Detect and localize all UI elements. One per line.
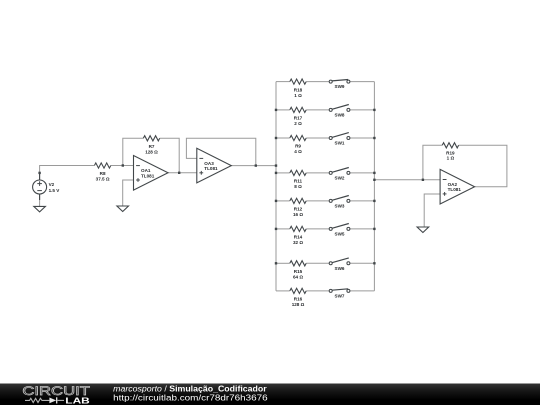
node OA1 output junction xyxy=(178,172,180,174)
svg-text:TL081: TL081 xyxy=(204,166,218,171)
node right bus row 2 xyxy=(373,109,375,111)
svg-text:R8: R8 xyxy=(100,171,106,176)
svg-text:R12: R12 xyxy=(294,207,303,212)
svg-text:SW8: SW8 xyxy=(335,113,345,118)
node left bus row 6 xyxy=(275,228,277,230)
footer bar xyxy=(0,384,540,405)
svg-text:TL081: TL081 xyxy=(448,187,462,192)
wire branch row 1 (R18/SW9) xyxy=(276,81,290,83)
node left bus row 3 xyxy=(275,137,277,139)
wire ladder right bus xyxy=(373,82,375,291)
wire OA3 feedback loop xyxy=(186,138,255,165)
svg-text:SW5: SW5 xyxy=(335,232,345,237)
node right bus row 7 xyxy=(373,262,375,264)
svg-text:marcosporto / Simulação_Codifi: marcosporto / Simulação_Codificador xyxy=(113,385,266,394)
wire R19 to OA2 output xyxy=(459,145,507,186)
node OA2 inverting input junction xyxy=(422,179,424,181)
svg-text:R9: R9 xyxy=(295,144,301,149)
svg-text:SW3: SW3 xyxy=(335,204,345,209)
resistor R15 xyxy=(290,261,306,280)
node left bus / OA3 output xyxy=(275,164,277,166)
wire V2 to R8 input line xyxy=(40,166,95,180)
ground (OA1 + input) xyxy=(117,206,129,212)
wire OA1 noninverting input to ground xyxy=(123,180,134,206)
resistor R16 xyxy=(290,288,306,307)
svg-text:8 Ω: 8 Ω xyxy=(294,184,302,189)
svg-text:SW1: SW1 xyxy=(335,141,345,146)
switch SW5 xyxy=(329,224,350,237)
resistor R11 xyxy=(290,170,306,189)
node right bus row 5 xyxy=(373,200,375,202)
wire R8 to OA1 inverting input xyxy=(111,165,134,167)
switch SW8 xyxy=(329,105,350,118)
wire V2 negative to ground xyxy=(39,194,41,206)
resistor R18 xyxy=(290,79,306,98)
svg-text:16 Ω: 16 Ω xyxy=(293,212,303,217)
svg-text:32 Ω: 32 Ω xyxy=(293,240,303,245)
switch SW2 xyxy=(329,168,350,181)
svg-text:1 Ω: 1 Ω xyxy=(447,156,455,161)
wire OA1 output to OA3 noninverting input xyxy=(168,172,197,174)
wire branch row 2 (R17/SW8) xyxy=(276,109,290,111)
switch SW3 xyxy=(329,196,350,209)
svg-text:V2: V2 xyxy=(49,182,55,187)
resistor R12 xyxy=(290,198,306,217)
node left bus row 7 xyxy=(275,262,277,264)
node right bus / OA2 input xyxy=(373,179,375,181)
op-amp OA2 xyxy=(440,169,475,204)
wire R7 to OA1 output xyxy=(160,138,180,173)
svg-text:2 Ω: 2 Ω xyxy=(294,121,302,126)
resistor R7 xyxy=(143,136,159,155)
wire branch row 5 (R12/SW3) xyxy=(276,200,290,202)
svg-text:http://circuitlab.com/cr78dr76: http://circuitlab.com/cr78dr76h3676 xyxy=(113,393,268,402)
svg-text:1 Ω: 1 Ω xyxy=(294,93,302,98)
svg-text:SW9: SW9 xyxy=(335,84,345,89)
wire branch row 6 (R14/SW5) xyxy=(276,228,290,230)
wire right bus to OA2 inverting input xyxy=(374,179,440,181)
switch SW1 xyxy=(329,133,350,146)
logo diode xyxy=(49,398,56,404)
wire OA1 feedback left (node to R7) xyxy=(123,138,144,165)
svg-text:1.5 V: 1.5 V xyxy=(49,188,61,193)
svg-text:4 Ω: 4 Ω xyxy=(294,149,302,154)
wire OA3 output to ladder left bus xyxy=(231,165,276,167)
ground (V2) xyxy=(34,206,46,212)
resistor R8 xyxy=(94,163,110,182)
wire OA2 noninverting input to ground xyxy=(424,194,440,227)
node V2 positive terminal xyxy=(38,172,40,174)
wire OA2 feedback left (node to R19) xyxy=(423,145,442,180)
node right bus row 3 xyxy=(373,137,375,139)
wire branch row 4 (R11/SW2) xyxy=(276,172,290,174)
op-amp OA3 xyxy=(197,148,232,183)
svg-text:37.5 Ω: 37.5 Ω xyxy=(96,177,110,182)
wire branch row 7 (R15/SW6) xyxy=(276,262,290,264)
node OA3 output junction xyxy=(255,164,257,166)
svg-text:LAB: LAB xyxy=(65,397,90,405)
svg-text:R14: R14 xyxy=(294,235,303,240)
node right bus row 4 xyxy=(373,172,375,174)
svg-text:SW6: SW6 xyxy=(335,266,345,271)
wire ladder left bus xyxy=(275,82,277,291)
svg-text:64 Ω: 64 Ω xyxy=(293,275,303,280)
svg-text:R15: R15 xyxy=(294,269,303,274)
svg-text:TL081: TL081 xyxy=(141,173,155,178)
resistor R14 xyxy=(290,226,306,245)
switch SW6 xyxy=(329,258,350,271)
switch SW7 xyxy=(329,289,350,299)
ground (OA2 + input) xyxy=(417,227,429,233)
node left bus row 2 xyxy=(275,109,277,111)
svg-text:R7: R7 xyxy=(149,144,155,149)
svg-text:SW2: SW2 xyxy=(335,176,345,181)
svg-text:SW7: SW7 xyxy=(335,294,345,299)
logo resistor zigzag xyxy=(25,398,49,402)
resistor R19 xyxy=(442,143,458,161)
svg-text:R11: R11 xyxy=(294,179,303,184)
node left bus row 4 xyxy=(275,172,277,174)
wire branch row 3 (R9/SW1) xyxy=(276,137,290,139)
op-amp OA1 xyxy=(134,156,169,191)
svg-text:R18: R18 xyxy=(294,87,303,92)
svg-text:R16: R16 xyxy=(294,297,303,302)
switch SW9 xyxy=(329,80,350,90)
node OA1 inverting input junction xyxy=(122,164,124,166)
wire branch row 8 (R16/SW7) xyxy=(276,290,290,292)
node left bus row 5 xyxy=(275,200,277,202)
node right bus row 6 xyxy=(373,228,375,230)
resistor R17 xyxy=(290,107,306,126)
svg-text:128 Ω: 128 Ω xyxy=(292,302,305,307)
svg-text:R17: R17 xyxy=(294,116,303,121)
resistor R9 xyxy=(290,135,306,154)
svg-text:128 Ω: 128 Ω xyxy=(145,150,158,155)
voltage source V2 xyxy=(33,174,61,201)
